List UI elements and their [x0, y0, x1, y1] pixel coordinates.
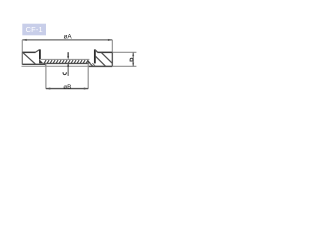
left ring section top edge [22, 51, 35, 53]
øA extension / left outer edge [21, 40, 23, 65]
C dimension lower pointer [67, 64, 69, 76]
left ring section bottom edge [22, 63, 46, 65]
right lip [94, 49, 96, 63]
dimension line øB [46, 88, 88, 90]
left chamfer [35, 50, 39, 53]
D dimension line [132, 52, 134, 66]
D top extension line [113, 51, 136, 53]
øB extension line left [45, 63, 47, 88]
right chamfer [95, 50, 98, 52]
C dimension upper pointer [67, 52, 69, 59]
dimension line øA [22, 39, 112, 41]
web bar hatching [44, 60, 88, 63]
svg-text:CF-1: CF-1 [26, 25, 43, 34]
left lip-web junction wedge [39, 59, 43, 63]
svg-text:øB: øB [63, 84, 71, 91]
dimension text C [63, 72, 66, 74]
left corner junction diagonal [44, 64, 46, 66]
right ring section hatching [95, 53, 112, 66]
øA extension / right outer edge [111, 40, 113, 67]
bottom face line [22, 65, 137, 67]
right web junction wedge [88, 60, 91, 63]
dimension text D [130, 58, 133, 61]
part label CF-1 [22, 24, 46, 36]
web bar top edge [41, 58, 90, 60]
left lip [39, 49, 41, 59]
right ring section top edge [97, 51, 112, 53]
web bar bottom edge [43, 62, 89, 64]
øB extension line right [87, 63, 89, 89]
left ring section hatching [23, 53, 35, 64]
right junction diagonal [90, 63, 93, 66]
